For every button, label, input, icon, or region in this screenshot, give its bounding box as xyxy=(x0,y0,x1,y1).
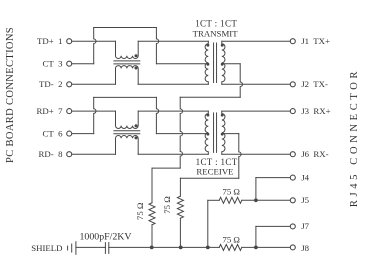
svg-text:J4: J4 xyxy=(301,172,309,182)
svg-text:J5: J5 xyxy=(301,195,309,205)
svg-text:75 Ω: 75 Ω xyxy=(222,187,240,197)
svg-text:SHIELD: SHIELD xyxy=(31,243,62,253)
svg-text:TD- 2: TD- 2 xyxy=(39,79,62,89)
svg-text:75 Ω: 75 Ω xyxy=(135,202,145,220)
svg-text:RD+ 7: RD+ 7 xyxy=(37,106,64,116)
svg-text:J8: J8 xyxy=(301,243,309,253)
svg-text:1CT : 1CT: 1CT : 1CT xyxy=(195,19,237,29)
svg-text:RJ45 CONNECTOR: RJ45 CONNECTOR xyxy=(349,68,360,207)
svg-text:CT 6: CT 6 xyxy=(42,128,63,138)
svg-text:PC BOARD CONNECTIONS: PC BOARD CONNECTIONS xyxy=(5,27,16,163)
svg-text:J2 TX-: J2 TX- xyxy=(301,79,328,89)
svg-text:RD- 8: RD- 8 xyxy=(39,149,64,159)
svg-text:75 Ω: 75 Ω xyxy=(222,235,240,245)
svg-text:J3 RX+: J3 RX+ xyxy=(301,106,330,116)
svg-text:TD+ 1: TD+ 1 xyxy=(37,36,62,46)
svg-text:1CT : 1CT: 1CT : 1CT xyxy=(196,157,238,167)
svg-text:1000pF/2KV: 1000pF/2KV xyxy=(79,232,132,243)
svg-text:J6 RX-: J6 RX- xyxy=(301,149,328,159)
svg-text:CT 3: CT 3 xyxy=(42,59,63,69)
svg-text:J7: J7 xyxy=(301,221,309,231)
svg-text:75 Ω: 75 Ω xyxy=(162,196,172,214)
svg-text:RECEIVE: RECEIVE xyxy=(196,167,233,177)
svg-text:J1 TX+: J1 TX+ xyxy=(301,36,330,46)
svg-text:TRANSMIT: TRANSMIT xyxy=(193,29,239,39)
